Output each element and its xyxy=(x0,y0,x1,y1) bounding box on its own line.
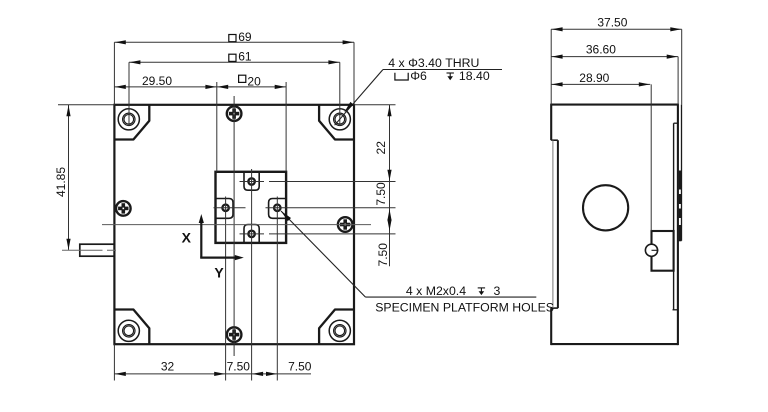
svg-text:32: 32 xyxy=(161,359,175,373)
svg-text:X: X xyxy=(182,229,192,245)
svg-text:7.50: 7.50 xyxy=(288,359,312,373)
svg-text:18.40: 18.40 xyxy=(459,69,490,83)
svg-text:7.50: 7.50 xyxy=(376,243,390,267)
svg-text:7.50: 7.50 xyxy=(374,182,388,206)
svg-text:Y: Y xyxy=(214,264,224,280)
svg-text:SPECIMEN PLATFORM HOLES: SPECIMEN PLATFORM HOLES xyxy=(375,300,554,314)
svg-text:61: 61 xyxy=(238,50,252,64)
svg-text:37.50: 37.50 xyxy=(597,15,627,29)
svg-text:7.50: 7.50 xyxy=(227,359,251,373)
svg-text:41.85: 41.85 xyxy=(54,167,68,197)
svg-text:22: 22 xyxy=(374,141,388,155)
svg-text:4 x M2x0.4: 4 x M2x0.4 xyxy=(406,284,466,298)
svg-text:4 x Φ3.40 THRU: 4 x Φ3.40 THRU xyxy=(388,56,479,70)
svg-text:28.90: 28.90 xyxy=(579,71,609,85)
svg-text:29.50: 29.50 xyxy=(142,74,172,88)
svg-text:Φ6: Φ6 xyxy=(410,69,427,83)
svg-text:20: 20 xyxy=(247,74,261,88)
svg-text:69: 69 xyxy=(238,30,252,44)
svg-text:36.60: 36.60 xyxy=(586,43,616,57)
svg-text:3: 3 xyxy=(494,284,501,298)
